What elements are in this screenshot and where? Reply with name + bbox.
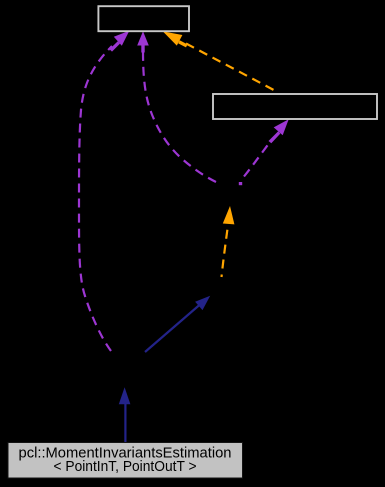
wire: usage edge (dashed purple) from hidden node to right class box (244, 142, 270, 177)
wire: template relation edge (dashed orange) vertical between hidden nodes (222, 225, 229, 277)
arrowhead of vertical orange edge (223, 206, 235, 224)
arrowhead of orange edge at top box (163, 31, 188, 47)
arrowhead of middle purple edge (137, 31, 149, 52)
arrowhead of left purple edge (110, 31, 130, 52)
junction dot at hidden node (239, 182, 242, 185)
wire: inheritance edge (solid blue) from main class to hidden base node (124, 403, 126, 443)
arrowhead of vertical blue edge (119, 387, 131, 404)
wire: inheritance edge (solid blue) between hidden nodes (145, 305, 200, 353)
node: top class box (empty) (98, 6, 189, 31)
arrowhead into right class box (269, 119, 289, 143)
svg-text:< PointInT, PointOutT >: < PointInT, PointOutT > (54, 459, 197, 475)
arrowhead of diagonal blue edge (195, 296, 210, 310)
node: right class box (empty) (213, 94, 377, 119)
wire: usage edge (dashed purple) from hidden node to top class box (79, 46, 112, 351)
wire: usage edge (dashed purple) from middle hidden node to top class box (143, 50, 216, 182)
wire: template relation edge (dashed orange) from right box to top class box (186, 44, 279, 93)
node: main class box pcl::MomentInvariantsEstimation (8, 443, 243, 479)
